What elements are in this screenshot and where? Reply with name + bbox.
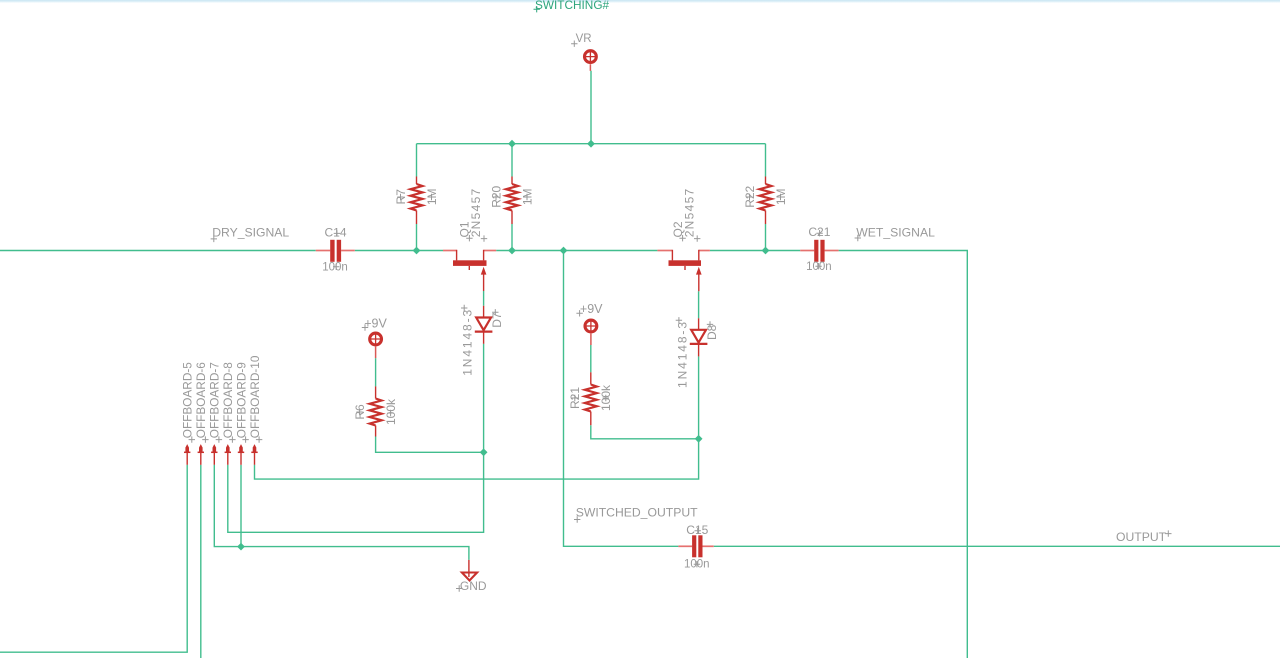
- svg-text:D8: D8: [705, 324, 719, 340]
- svg-text:GND: GND: [460, 579, 487, 593]
- svg-text:C14: C14: [324, 226, 346, 240]
- svg-text:OFFBOARD-6: OFFBOARD-6: [194, 362, 208, 438]
- svg-text:VR: VR: [576, 33, 592, 45]
- svg-text:OFFBOARD-5: OFFBOARD-5: [181, 362, 195, 438]
- svg-text:SWITCHED_OUTPUT: SWITCHED_OUTPUT: [576, 506, 698, 520]
- svg-text:1N4148-3: 1N4148-3: [461, 308, 475, 376]
- svg-text:+9V: +9V: [580, 302, 603, 316]
- svg-text:DRY_SIGNAL: DRY_SIGNAL: [212, 226, 289, 240]
- svg-text:OFFBOARD-8: OFFBOARD-8: [221, 362, 235, 438]
- svg-text:OFFBOARD-7: OFFBOARD-7: [208, 362, 222, 438]
- svg-text:100n: 100n: [322, 262, 348, 274]
- svg-text:OUTPUT: OUTPUT: [1116, 530, 1167, 544]
- svg-text:D7: D7: [490, 312, 504, 328]
- svg-text:SWITCHING#: SWITCHING#: [535, 0, 609, 12]
- svg-text:2N5457: 2N5457: [469, 187, 483, 237]
- svg-text:2N5457: 2N5457: [682, 187, 696, 237]
- svg-text:OFFBOARD-10: OFFBOARD-10: [248, 355, 262, 438]
- svg-text:+9V: +9V: [364, 316, 387, 330]
- svg-text:WET_SIGNAL: WET_SIGNAL: [856, 225, 935, 239]
- svg-text:OFFBOARD-9: OFFBOARD-9: [234, 362, 248, 438]
- svg-text:1N4148-3: 1N4148-3: [675, 320, 689, 388]
